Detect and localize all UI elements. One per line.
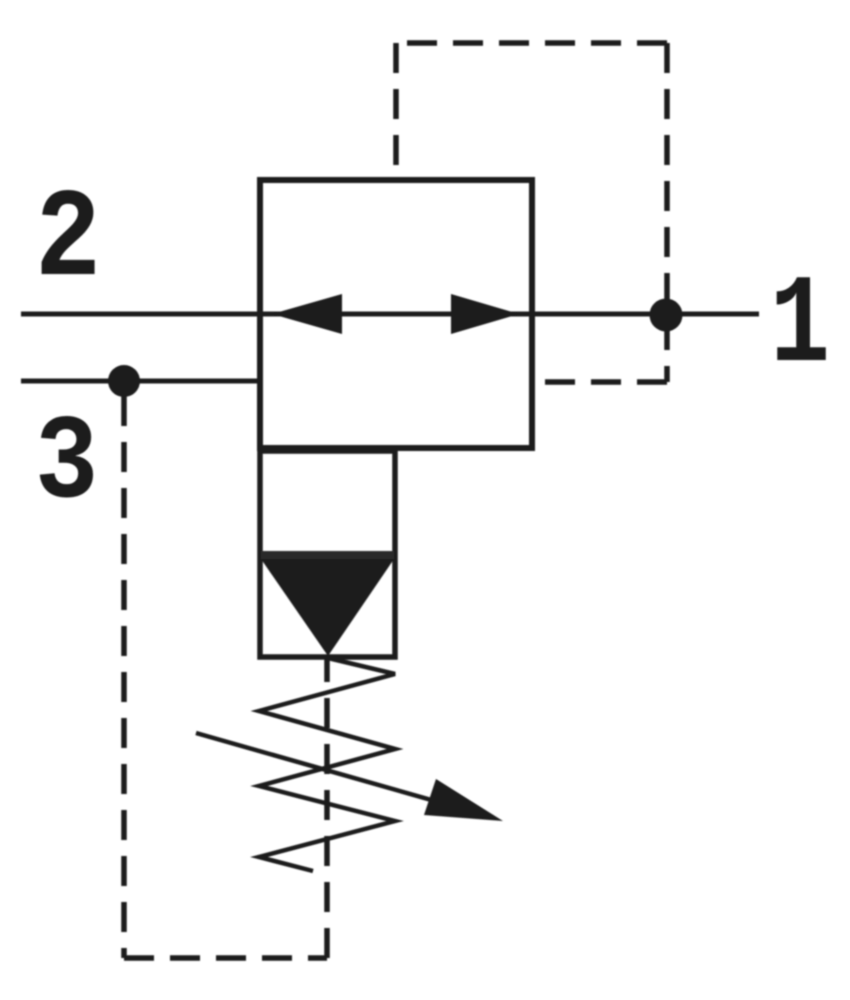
port 3 wire (21, 379, 260, 384)
pilot line to envelope right side (dashed) (532, 379, 667, 385)
flow arrow left (272, 294, 342, 334)
port 1 wire (532, 312, 759, 317)
adjustment arrow shaft (196, 733, 470, 811)
port 2 wire (21, 312, 260, 317)
pilot drain rising vertical through spring (dashed) (324, 658, 330, 958)
svg-text:3: 3 (35, 396, 98, 532)
junction node on port 3 (108, 365, 140, 397)
junction node on port 1 (650, 299, 683, 332)
svg-text:1: 1 (770, 256, 830, 397)
flow path wire inside valve (260, 312, 532, 317)
flow arrow right (451, 294, 519, 334)
pilot drain left vertical (dashed) (121, 396, 127, 958)
poppet seat bar (261, 551, 394, 559)
poppet chamber box (260, 451, 395, 657)
poppet cone (filled triangle) (261, 559, 394, 656)
pilot drain bottom horizontal (dashed) (124, 955, 327, 961)
pilot line right vertical from node 1 (dashed) (664, 43, 670, 314)
spring (259, 658, 395, 871)
pilot line top horizontal (dashed) (396, 40, 667, 46)
adjustment arrow head (424, 779, 503, 821)
pilot line left vertical to envelope top (dashed) (393, 43, 399, 180)
pilot line below node 1 vertical (dashed) (664, 320, 670, 382)
svg-text:2: 2 (35, 171, 101, 312)
valve envelope (main body) (260, 180, 532, 448)
